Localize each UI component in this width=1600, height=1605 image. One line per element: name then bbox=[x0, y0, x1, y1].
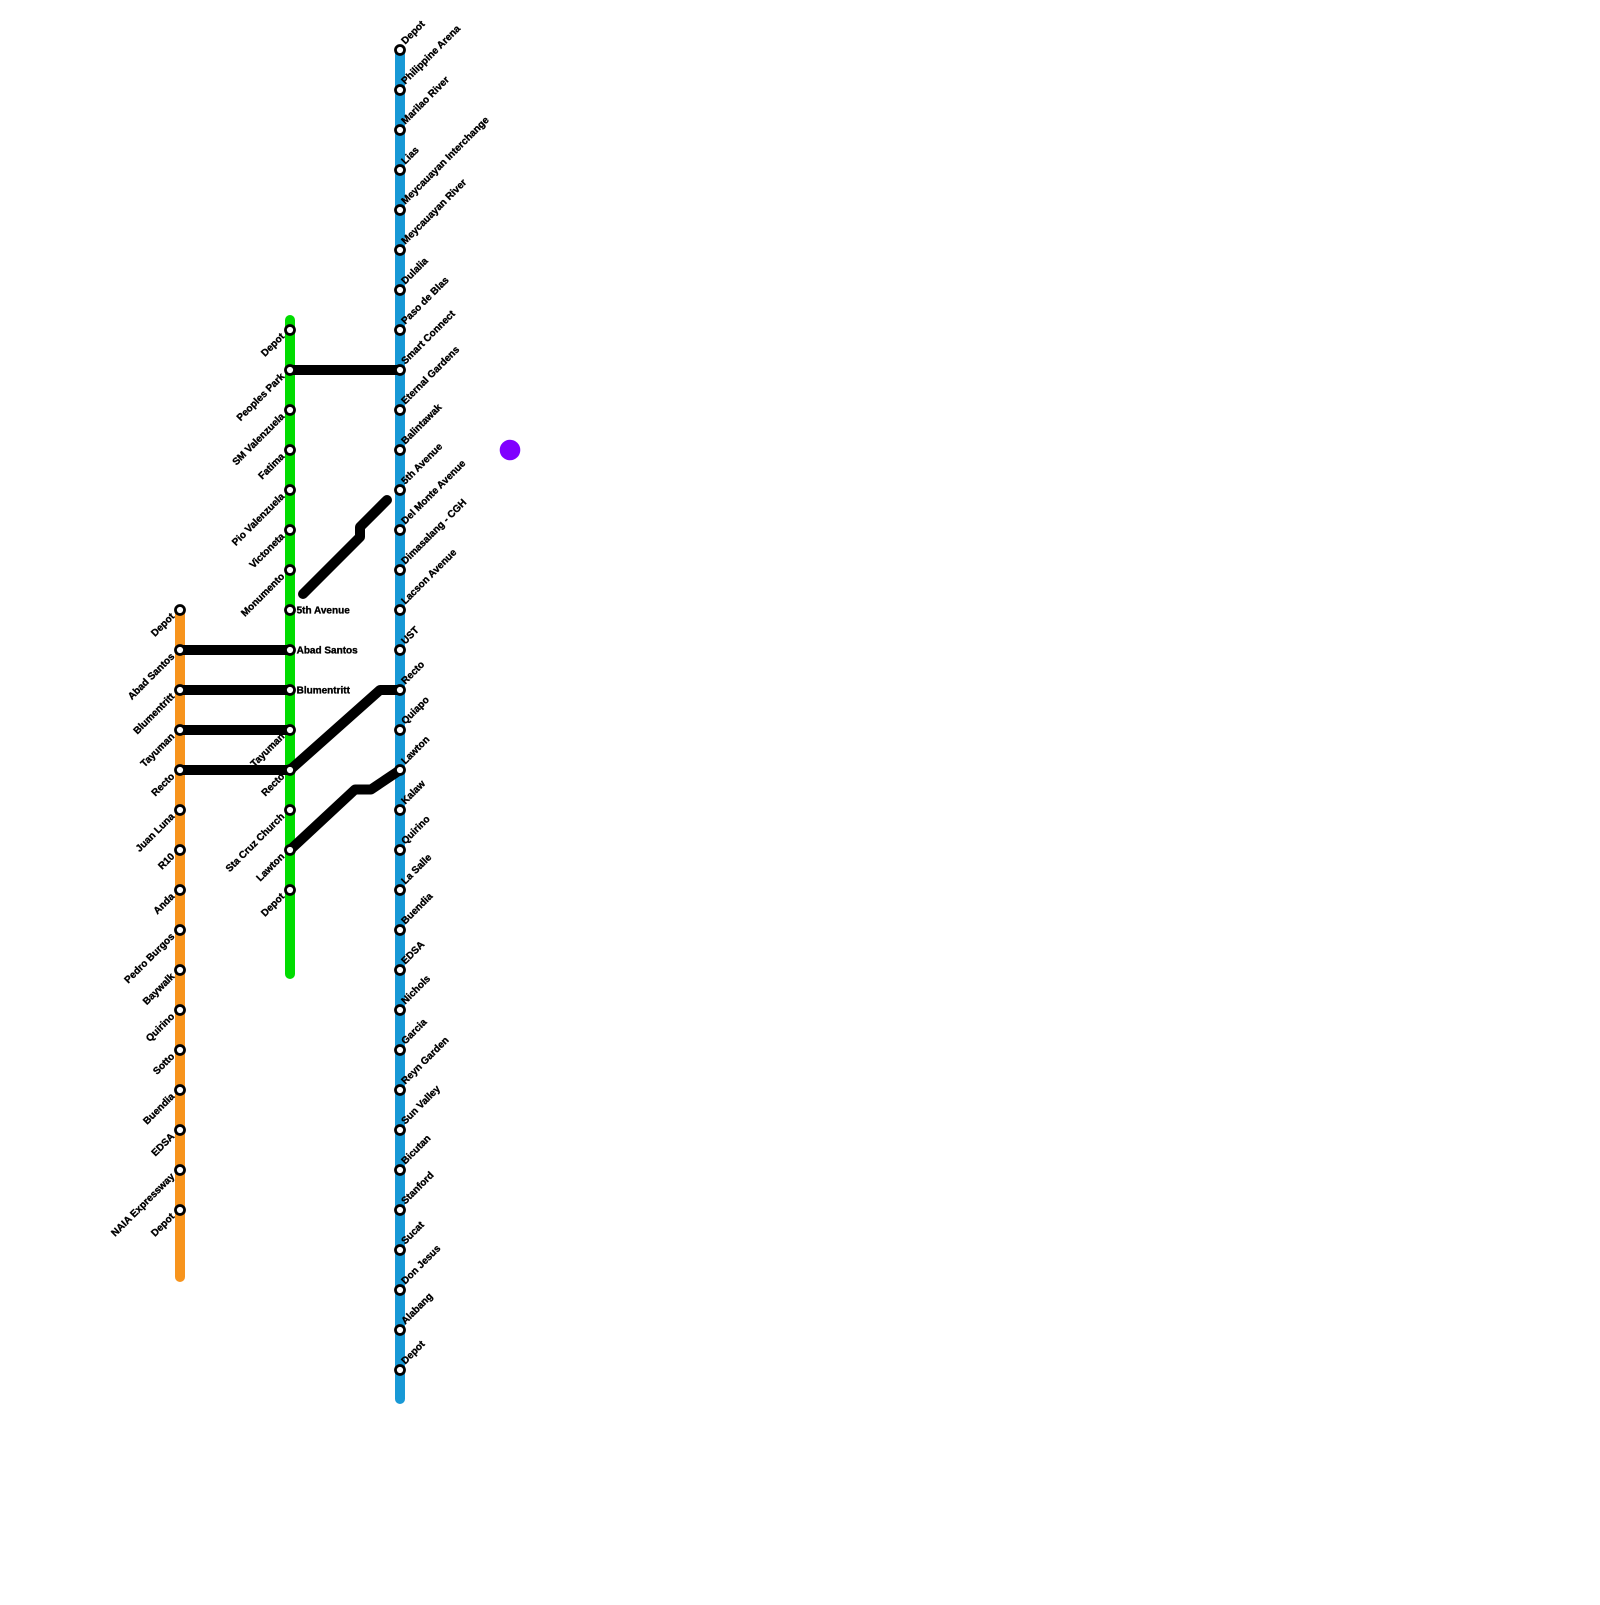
station marker: blue line Meycauayan River bbox=[396, 246, 405, 255]
station marker: blue line Balintawak bbox=[396, 446, 405, 455]
station marker: blue line Reyn Garden bbox=[396, 1086, 405, 1095]
transfer Abad Santos orange-green bbox=[180, 645, 290, 655]
station marker: blue line Dimasalang - CGH bbox=[396, 566, 405, 575]
station marker: green line Peoples Park bbox=[286, 366, 295, 375]
station marker: blue line Quiapo bbox=[396, 726, 405, 735]
station marker: blue line Dulalia bbox=[396, 286, 405, 295]
green line bbox=[285, 320, 295, 974]
station marker: blue line Philippine Arena bbox=[396, 86, 405, 95]
station marker: blue line Sun Valley bbox=[396, 1126, 405, 1135]
station marker: green line SM Valenzuela bbox=[286, 406, 295, 415]
station marker: orange line Anda bbox=[176, 886, 185, 895]
station marker: blue line Meycauayan Interchange bbox=[396, 206, 405, 215]
station marker: orange line Pedro Burgos bbox=[176, 926, 185, 935]
station marker: blue line Depot bbox=[396, 1366, 405, 1375]
station marker: blue line Del Monte Avenue bbox=[396, 526, 405, 535]
station marker: green line Abad Santos bbox=[286, 646, 295, 655]
station marker: blue line Lawton bbox=[396, 766, 405, 775]
station marker: green line Sta Cruz Church bbox=[286, 806, 295, 815]
purple node bbox=[500, 440, 521, 461]
transfer Lawton green-blue bbox=[290, 770, 400, 850]
transfer Tayuman orange-green bbox=[180, 725, 290, 735]
station marker: blue line La Salle bbox=[396, 886, 405, 895]
station marker: orange line Blumentritt bbox=[176, 686, 185, 695]
station marker: blue line Recto bbox=[396, 686, 405, 695]
station marker: green line Pio Valenzuela bbox=[286, 486, 295, 495]
transfer 5th Avenue green-blue bbox=[303, 500, 387, 594]
station marker: blue line 5th Avenue bbox=[396, 486, 405, 495]
station marker: orange line Depot bbox=[176, 606, 185, 615]
station marker: orange line Tayuman bbox=[176, 726, 185, 735]
station marker: orange line Baywalk bbox=[176, 966, 185, 975]
station marker: orange line R10 bbox=[176, 846, 185, 855]
station marker: orange line Depot bbox=[176, 1206, 185, 1215]
station marker: blue line Don Jesus bbox=[396, 1286, 405, 1295]
station marker: blue line Paso de Blas bbox=[396, 326, 405, 335]
station marker: green line Victoneta bbox=[286, 526, 295, 535]
station marker: green line Depot bbox=[286, 886, 295, 895]
station marker: green line Blumentritt bbox=[286, 686, 295, 695]
transfer Recto green-blue bbox=[290, 690, 400, 770]
station marker: blue line EDSA bbox=[396, 966, 405, 975]
station marker: blue line Bicutan bbox=[396, 1166, 405, 1175]
station marker: green line 5th Avenue bbox=[286, 606, 295, 615]
station marker: blue line Stanford bbox=[396, 1206, 405, 1215]
svg-text:Abad Santos: Abad Santos bbox=[297, 646, 359, 657]
station marker: orange line Abad Santos bbox=[176, 646, 185, 655]
station marker: blue line Lias bbox=[396, 166, 405, 175]
station marker: green line Fatima bbox=[286, 446, 295, 455]
transfer Blumentritt orange-green bbox=[180, 685, 290, 695]
station marker: green line Lawton bbox=[286, 846, 295, 855]
station marker: blue line UST bbox=[396, 646, 405, 655]
orange line LRT bbox=[175, 612, 185, 1277]
transfer Peoples Park - Smart Connect bbox=[290, 365, 400, 375]
station marker: blue line Lacson Avenue bbox=[396, 606, 405, 615]
station marker: blue line Eternal Gardens bbox=[396, 406, 405, 415]
transfer Recto orange-green bbox=[180, 765, 290, 775]
station marker: green line Depot bbox=[286, 326, 295, 335]
svg-text:5th Avenue: 5th Avenue bbox=[297, 606, 351, 617]
blue line bbox=[395, 52, 405, 1399]
station marker: orange line Juan Luna bbox=[176, 806, 185, 815]
station marker: blue line Quirino bbox=[396, 846, 405, 855]
station marker: green line Monumento bbox=[286, 566, 295, 575]
station marker: blue line Buendia bbox=[396, 926, 405, 935]
station marker: blue line Nichols bbox=[396, 1006, 405, 1015]
station marker: blue line Marilao River bbox=[396, 126, 405, 135]
station marker: orange line NAIA Expressway bbox=[176, 1166, 185, 1175]
station marker: orange line EDSA bbox=[176, 1126, 185, 1135]
station marker: blue line Depot bbox=[396, 46, 405, 55]
station marker: blue line Sucat bbox=[396, 1246, 405, 1255]
station marker: orange line Quirino bbox=[176, 1006, 185, 1015]
station marker: green line Recto bbox=[286, 766, 295, 775]
station marker: blue line Kalaw bbox=[396, 806, 405, 815]
station marker: blue line Garcia bbox=[396, 1046, 405, 1055]
station marker: orange line Sotto bbox=[176, 1046, 185, 1055]
station marker: orange line Recto bbox=[176, 766, 185, 775]
station marker: orange line Buendia bbox=[176, 1086, 185, 1095]
svg-text:Blumentritt: Blumentritt bbox=[297, 686, 351, 697]
station marker: blue line Smart Connect bbox=[396, 366, 405, 375]
station marker: blue line Alabang bbox=[396, 1326, 405, 1335]
station marker: green line Tayuman bbox=[286, 726, 295, 735]
